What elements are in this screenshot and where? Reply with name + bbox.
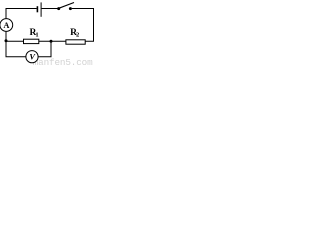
switch lever — [59, 3, 74, 9]
battery long plate (positive) — [40, 2, 42, 16]
wire: battery to switch — [42, 8, 58, 10]
wire: middle row node to R1 — [6, 40, 24, 42]
label R2 — [70, 28, 79, 38]
wire: node B down and left to voltmeter — [38, 41, 51, 57]
svg-text:1: 1 — [35, 32, 38, 39]
node B (junction dot middle) — [50, 40, 53, 43]
wire: left upper vertical + top-left segment — [6, 9, 37, 19]
ammeter A — [0, 19, 13, 32]
resistor R1 — [24, 39, 39, 43]
label R1 — [30, 28, 39, 38]
svg-text:2: 2 — [76, 32, 79, 39]
wire: switch to top-right corner, down right side to R2 — [72, 9, 94, 42]
switch right dot — [69, 7, 72, 10]
voltmeter V — [26, 51, 38, 63]
resistor R2 — [66, 40, 85, 44]
switch pivot dot — [57, 7, 60, 10]
node A (junction dot left) — [5, 39, 8, 42]
wire: left lower vertical + bottom-left run to voltmeter — [6, 31, 26, 57]
svg-text:manfen5.com: manfen5.com — [33, 57, 93, 67]
svg-text:A: A — [3, 21, 9, 30]
wire: R1 to R2 — [39, 40, 66, 42]
battery short plate (negative) — [36, 6, 38, 12]
